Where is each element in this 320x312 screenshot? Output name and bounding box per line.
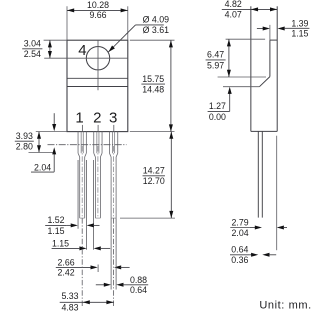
svg-text:5.97: 5.97 <box>207 60 224 70</box>
svg-text:2: 2 <box>93 109 101 126</box>
svg-text:1.39: 1.39 <box>291 19 308 29</box>
svg-text:2.80: 2.80 <box>16 142 33 152</box>
svg-text:14.27: 14.27 <box>143 166 165 176</box>
svg-text:12.70: 12.70 <box>143 176 165 186</box>
svg-text:6.47: 6.47 <box>207 50 224 60</box>
svg-text:Ø 3.61: Ø 3.61 <box>143 25 170 35</box>
svg-text:2.04: 2.04 <box>232 228 249 238</box>
svg-text:1.15: 1.15 <box>52 238 69 248</box>
svg-text:3.93: 3.93 <box>16 131 33 141</box>
svg-text:4: 4 <box>78 42 86 59</box>
svg-text:1.15: 1.15 <box>291 28 308 38</box>
svg-text:3.04: 3.04 <box>24 39 41 49</box>
svg-text:1.27: 1.27 <box>209 101 226 111</box>
svg-text:2.66: 2.66 <box>58 257 75 267</box>
svg-text:Ø 4.09: Ø 4.09 <box>143 15 170 25</box>
svg-text:2.42: 2.42 <box>58 268 75 278</box>
svg-text:15.75: 15.75 <box>142 74 164 84</box>
svg-text:4.83: 4.83 <box>61 303 78 312</box>
svg-text:0.64: 0.64 <box>231 245 248 255</box>
svg-text:2.04: 2.04 <box>34 162 51 172</box>
svg-text:0.36: 0.36 <box>231 255 248 265</box>
svg-text:0.00: 0.00 <box>209 112 226 122</box>
svg-text:5.33: 5.33 <box>61 291 78 301</box>
svg-text:Unit: mm.: Unit: mm. <box>259 299 311 311</box>
svg-text:2.79: 2.79 <box>232 217 249 227</box>
svg-text:1.52: 1.52 <box>47 215 64 225</box>
svg-text:0.64: 0.64 <box>130 285 147 295</box>
svg-text:4.07: 4.07 <box>225 10 242 20</box>
svg-text:4.82: 4.82 <box>225 0 242 9</box>
svg-text:3: 3 <box>109 109 117 126</box>
svg-text:1.15: 1.15 <box>47 226 64 236</box>
svg-text:9.66: 9.66 <box>89 10 106 20</box>
svg-text:0.88: 0.88 <box>130 275 147 285</box>
svg-text:10.28: 10.28 <box>87 0 109 10</box>
svg-text:1: 1 <box>75 109 83 126</box>
svg-text:2.54: 2.54 <box>24 49 41 59</box>
svg-text:14.48: 14.48 <box>142 85 164 95</box>
